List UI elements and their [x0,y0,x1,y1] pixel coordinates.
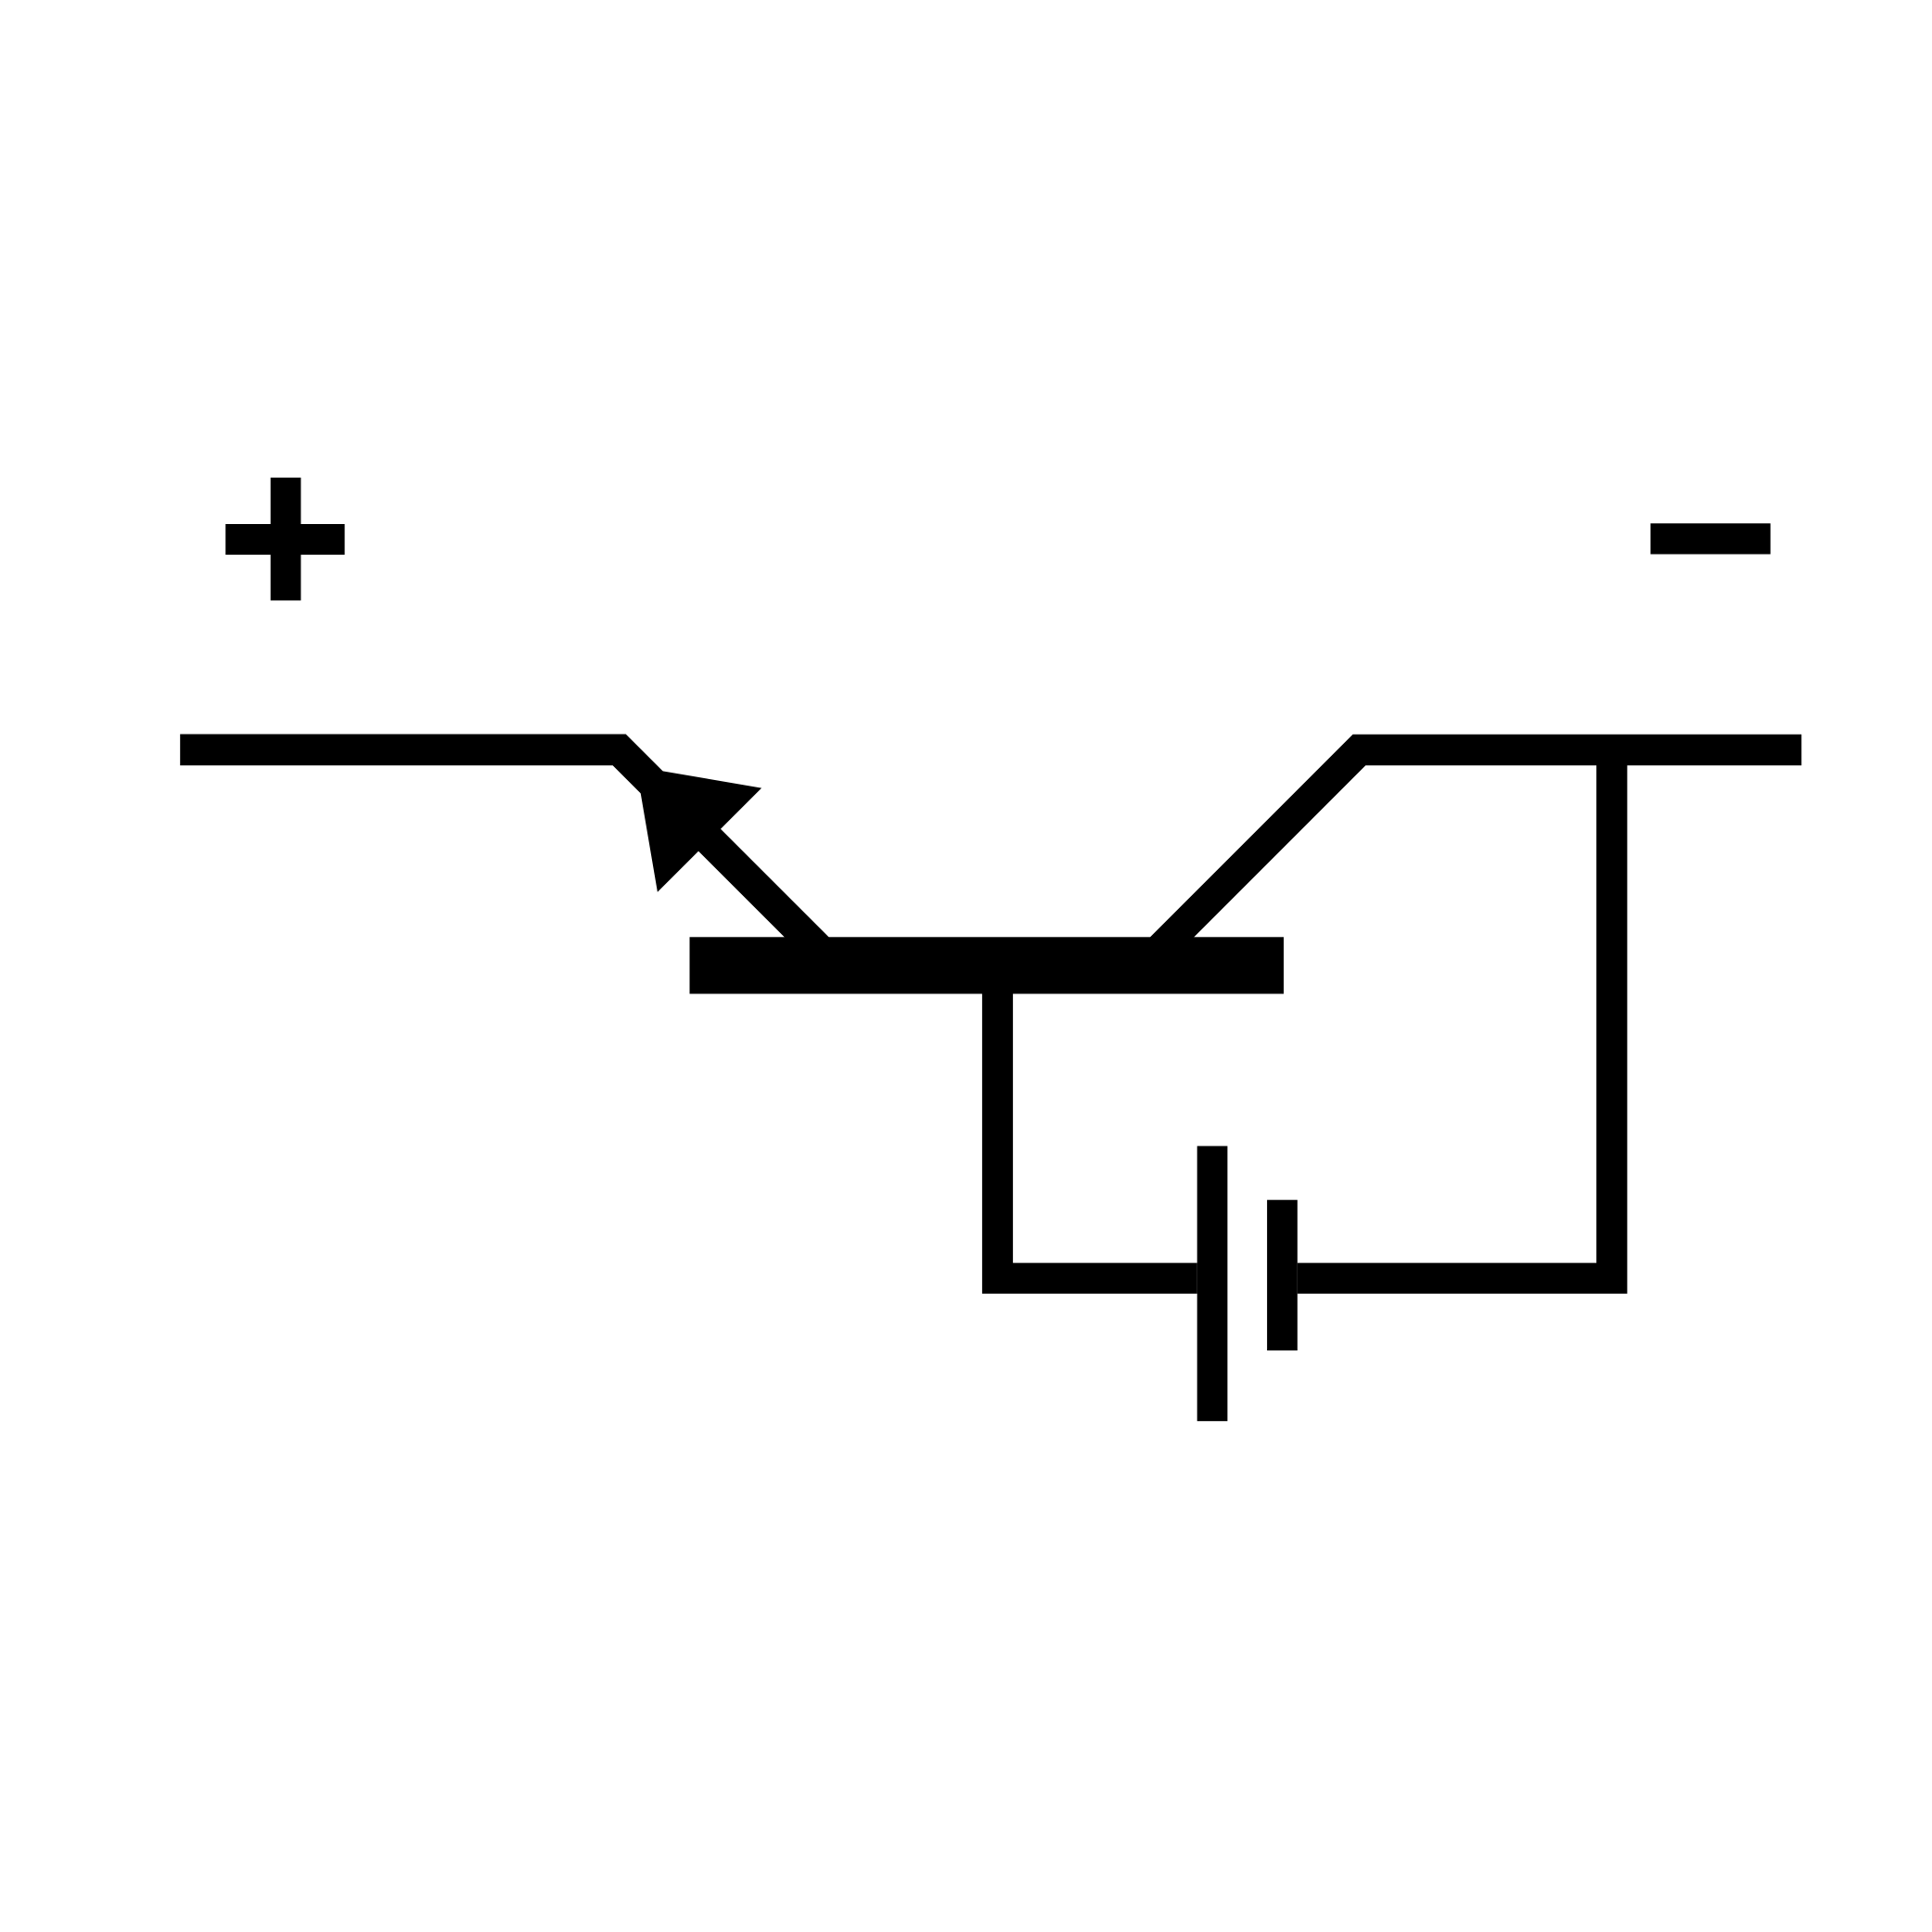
plus terminal label [225,478,344,601]
minus terminal label [1651,523,1771,554]
battery B1 positive (long) plate [1197,1146,1228,1422]
wire: base to battery negative [998,993,1197,1278]
transistor Q1 base bar [690,937,1285,993]
wire: battery to collector lead [1298,750,1612,1279]
wire: + terminal lead and emitter line [180,749,835,966]
emitter arrowhead [636,767,761,892]
wire: collector line and - terminal lead [1144,750,1801,966]
battery B1 negative (short) plate [1267,1200,1298,1350]
